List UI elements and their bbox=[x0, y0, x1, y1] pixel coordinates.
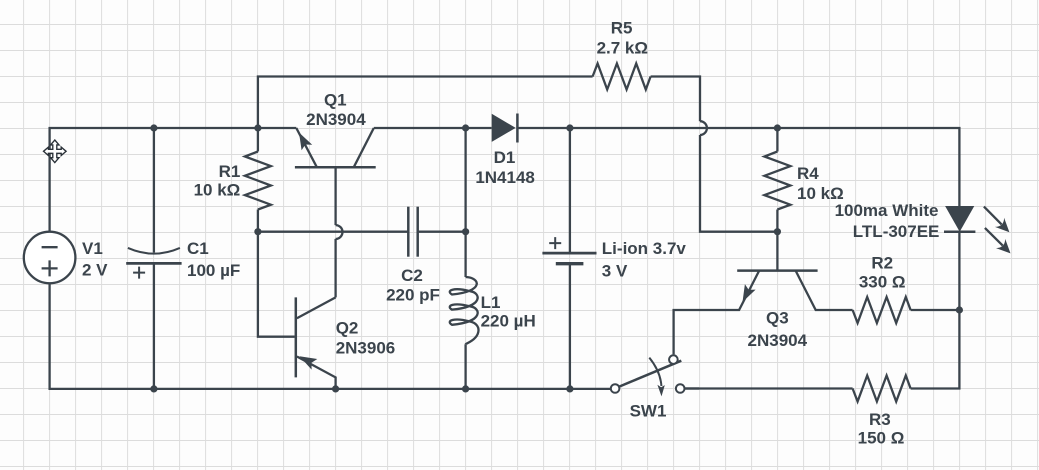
svg-text:R3: R3 bbox=[869, 410, 891, 429]
svg-text:Q1: Q1 bbox=[324, 91, 347, 110]
svg-text:10 kΩ: 10 kΩ bbox=[797, 184, 844, 203]
svg-text:150 Ω: 150 Ω bbox=[858, 429, 905, 448]
svg-text:D1: D1 bbox=[494, 148, 516, 167]
svg-text:R4: R4 bbox=[797, 164, 819, 183]
svg-text:330 Ω: 330 Ω bbox=[859, 273, 906, 292]
svg-text:R2: R2 bbox=[871, 253, 893, 272]
svg-text:100ma White: 100ma White bbox=[835, 201, 939, 220]
svg-text:C1: C1 bbox=[187, 239, 209, 258]
svg-text:L1: L1 bbox=[481, 293, 501, 312]
svg-text:Li-ion 3.7v: Li-ion 3.7v bbox=[602, 239, 687, 258]
svg-text:10 kΩ: 10 kΩ bbox=[194, 181, 241, 200]
svg-text:2N3906: 2N3906 bbox=[336, 339, 396, 358]
svg-text:100 µF: 100 µF bbox=[187, 261, 240, 280]
svg-text:220 pF: 220 pF bbox=[386, 285, 440, 304]
svg-text:1N4148: 1N4148 bbox=[475, 168, 535, 187]
svg-text:R1: R1 bbox=[219, 162, 241, 181]
svg-text:3 V: 3 V bbox=[602, 261, 628, 280]
svg-text:2.7 kΩ: 2.7 kΩ bbox=[597, 39, 648, 58]
svg-text:V1: V1 bbox=[82, 239, 103, 258]
svg-text:LTL-307EE: LTL-307EE bbox=[853, 222, 940, 241]
svg-text:2 V: 2 V bbox=[82, 260, 108, 279]
svg-text:Q2: Q2 bbox=[336, 319, 359, 338]
svg-text:220 µH: 220 µH bbox=[481, 312, 536, 331]
svg-text:R5: R5 bbox=[611, 18, 633, 37]
svg-text:Q3: Q3 bbox=[766, 309, 789, 328]
svg-text:C2: C2 bbox=[401, 266, 423, 285]
svg-text:2N3904: 2N3904 bbox=[306, 110, 366, 129]
svg-text:2N3904: 2N3904 bbox=[748, 331, 808, 350]
svg-text:SW1: SW1 bbox=[630, 402, 667, 421]
